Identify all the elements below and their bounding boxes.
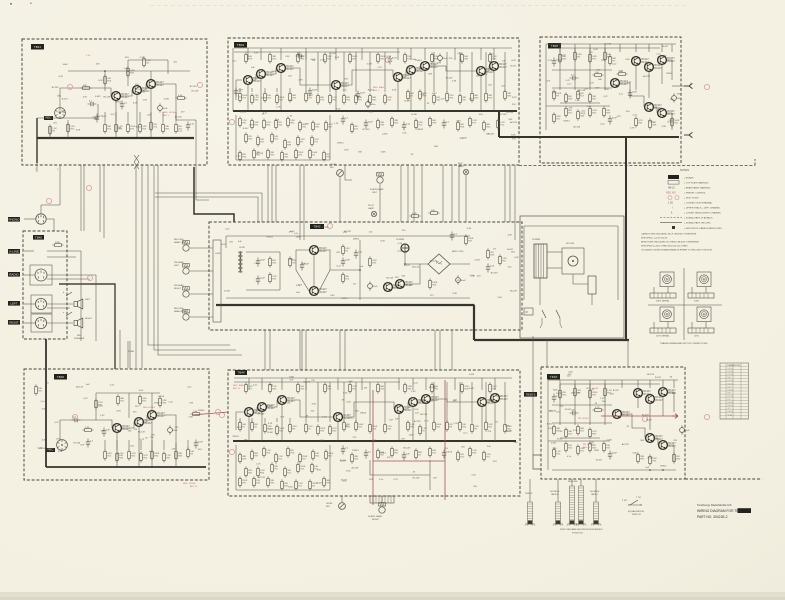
capacitor (608, 451, 618, 460)
resistor (469, 116, 478, 127)
electrolytic capacitor (680, 425, 691, 434)
svg-text:25V: 25V (577, 392, 581, 394)
resistor (269, 256, 277, 267)
bus to TB46 (45, 339, 47, 467)
level indicator right (339, 503, 346, 510)
svg-text:5uF: 5uF (406, 454, 410, 456)
resistor (263, 118, 272, 129)
resistor (635, 116, 644, 127)
supply feeder (604, 44, 606, 52)
capacitor (341, 258, 351, 267)
svg-text:3,3K: 3,3K (452, 81, 457, 83)
svg-text:15K: 15K (401, 276, 405, 278)
capacitor (341, 116, 349, 125)
board label TB40 (33, 235, 44, 240)
ground bus TB41 (37, 137, 194, 139)
svg-text:B-347: B-347 (224, 291, 231, 293)
resistor (649, 118, 657, 129)
wire (545, 44, 547, 130)
svg-text:BC149: BC149 (191, 90, 198, 92)
svg-text:AC128: AC128 (351, 467, 358, 470)
capacitor (86, 439, 94, 448)
junction (649, 469, 651, 471)
svg-text:TRANSFORMER AND MOTOR CONNE: TRANSFORMER AND MOTOR CONNECTIONS (660, 342, 708, 345)
svg-text:1N914: 1N914 (666, 73, 673, 75)
wire (381, 496, 383, 503)
svg-text:8,2K: 8,2K (573, 430, 578, 432)
svg-text:RED.ADJ: RED.ADJ (666, 192, 677, 195)
svg-text:TB45: TB45 (551, 44, 559, 48)
board TB46 outline (24, 369, 209, 480)
svg-text:3,3K: 3,3K (58, 451, 63, 453)
svg-text:10K: 10K (595, 72, 599, 74)
svg-text:3,3K: 3,3K (369, 111, 374, 113)
resistor (577, 444, 586, 455)
svg-text:= BOARD: = BOARD (684, 177, 694, 180)
resistor (323, 476, 331, 487)
supply feeder (673, 380, 675, 388)
resistor (459, 93, 467, 104)
wire (95, 275, 97, 341)
lamp wire (465, 175, 467, 222)
wire (370, 460, 430, 475)
svg-text:25uF: 25uF (368, 122, 374, 124)
capacitor (552, 394, 560, 403)
resistor (609, 54, 617, 65)
svg-text:B-347: B-347 (489, 134, 496, 136)
wire (80, 251, 82, 341)
component string wire TB44 (433, 382, 435, 422)
resistor (351, 452, 359, 463)
rail wire (96, 392, 160, 394)
transistor Q5 (257, 70, 275, 79)
wire (335, 90, 337, 111)
svg-text:47K: 47K (387, 457, 391, 459)
interconnect wire (458, 165, 460, 222)
svg-text:B-347: B-347 (411, 114, 418, 116)
component string wire TB45 (574, 48, 576, 90)
resistor (276, 424, 285, 435)
svg-text:220K: 220K (55, 242, 61, 244)
svg-text:1N914: 1N914 (353, 238, 360, 240)
bus corner TB43 (498, 111, 500, 137)
svg-text:ADJ. R: ADJ. R (190, 485, 197, 488)
svg-text:BC149: BC149 (605, 44, 612, 46)
resistor R10 (104, 74, 112, 85)
svg-text:5uF: 5uF (238, 97, 242, 99)
svg-text:TB36-2: TB36-2 (526, 392, 536, 396)
circled test point 3 (197, 82, 202, 87)
record selector wafer S1a (55, 108, 66, 119)
junction (498, 110, 500, 112)
resistor (377, 448, 385, 459)
svg-text:0,2 3,4: 0,2 3,4 (728, 396, 733, 398)
supply feeder wire (398, 378, 400, 390)
svg-text:TAPE L: TAPE L (591, 493, 599, 496)
level indicator meter (337, 170, 344, 177)
resistor R7 (175, 122, 183, 133)
speaker feed bus (59, 284, 115, 369)
legend deposited resistor symbol (672, 226, 675, 229)
wire (552, 422, 612, 424)
svg-text:25V: 25V (151, 434, 155, 436)
board label TB43 (234, 42, 247, 48)
component string wire TB48 (604, 384, 606, 425)
resistor (589, 441, 597, 452)
wire (115, 101, 117, 138)
capacitor (486, 264, 495, 273)
svg-text:3 3/4: 3 3/4 (622, 500, 628, 502)
supply feeder (559, 44, 561, 52)
svg-text:FLIP: FLIP (458, 163, 463, 165)
transistor Q30 (395, 405, 413, 414)
page edge perforation line (150, 5, 690, 7)
resistor (577, 109, 586, 120)
component stub TB46 (104, 440, 106, 450)
resistor (553, 447, 562, 458)
junction (662, 469, 664, 471)
coupling wire (404, 402, 408, 409)
svg-text:5uF: 5uF (487, 446, 491, 448)
resistor (431, 382, 439, 393)
svg-text:25V: 25V (229, 242, 233, 244)
resistor (325, 120, 334, 131)
wire (329, 115, 331, 160)
coupling wire (341, 70, 393, 85)
svg-text:LEFT: LEFT (174, 265, 180, 267)
circled test point (72, 414, 77, 419)
coupling wire (416, 66, 420, 70)
svg-text:RECORD: RECORD (174, 308, 184, 310)
right label (8, 320, 20, 325)
signal bus TB44 (233, 440, 516, 442)
resistor (429, 446, 437, 457)
relay box (524, 308, 533, 315)
svg-text:RED. BIAS: RED. BIAS (233, 384, 244, 387)
resistor (483, 120, 491, 131)
capacitor (364, 120, 374, 129)
resistor (305, 91, 314, 102)
svg-text:M: M (666, 278, 669, 282)
svg-text:56K: 56K (677, 93, 681, 95)
wire (225, 236, 227, 248)
wire (176, 119, 196, 121)
svg-text:1,5V: 1,5V (86, 55, 91, 57)
svg-text:1,2K: 1,2K (129, 446, 134, 448)
svg-text:B-347: B-347 (136, 127, 143, 129)
svg-text:5uF: 5uF (251, 67, 255, 69)
component string wire TB48 (589, 384, 591, 425)
svg-text:8,2K: 8,2K (605, 89, 610, 91)
svg-text:25V: 25V (423, 69, 427, 71)
resistor (355, 93, 363, 104)
svg-text:56K: 56K (434, 146, 438, 148)
stub wire (289, 88, 291, 92)
svg-text:47K: 47K (336, 252, 340, 254)
svg-text:8,2K: 8,2K (98, 406, 103, 408)
svg-text:HEAD LEFT: HEAD LEFT (174, 241, 187, 244)
transistor Q4 (244, 76, 262, 85)
svg-text:TB46: TB46 (57, 375, 65, 379)
flip lamp (463, 169, 468, 174)
svg-text:B-347: B-347 (510, 66, 517, 68)
motor B1 (562, 248, 584, 274)
svg-text:TB41: TB41 (34, 45, 42, 49)
board TB44 outline (228, 370, 520, 496)
resistor (446, 91, 455, 102)
svg-text:B-347: B-347 (662, 46, 669, 48)
wire (560, 437, 600, 439)
resistor (159, 396, 168, 407)
svg-text:47K: 47K (338, 413, 342, 415)
resistor (275, 118, 283, 129)
resistor (589, 106, 598, 117)
svg-text:BC149: BC149 (52, 87, 59, 89)
record head left (183, 241, 190, 252)
junction (661, 136, 663, 138)
interconnect wire 6 (504, 165, 506, 222)
component string wire TB43 (504, 52, 506, 92)
resistor R4 (139, 122, 148, 133)
red output wire (601, 415, 672, 417)
svg-text:10%: 10% (424, 421, 428, 423)
svg-text:RIGHT: RIGHT (85, 318, 92, 320)
svg-text:12 3,4: 12 3,4 (728, 414, 733, 416)
transistor Q34 (491, 394, 509, 403)
resistor R1 (104, 122, 112, 133)
supply feeder wire (493, 48, 495, 60)
capacitor (570, 74, 579, 80)
left speaker jack J3 (35, 298, 46, 309)
svg-text:10%: 10% (456, 121, 460, 123)
supply feeder wire (305, 378, 307, 390)
svg-text:8,4 0,1: 8,4 0,1 (728, 405, 733, 407)
svg-text:100K: 100K (380, 151, 386, 153)
svg-text:10%: 10% (479, 114, 483, 116)
head wire (190, 316, 213, 318)
coupling wire (287, 400, 333, 417)
junction (115, 137, 117, 139)
resistor (289, 422, 298, 433)
wire (668, 392, 674, 412)
junction (359, 269, 361, 271)
svg-text:25V: 25V (552, 93, 556, 95)
board label TB45 (548, 43, 561, 49)
wire (480, 76, 482, 111)
wire (635, 66, 637, 90)
wire (552, 87, 612, 89)
capacitor (356, 91, 366, 100)
transistor Q13 (632, 57, 650, 66)
left speaker LS1 (74, 299, 83, 309)
svg-text:3,3K: 3,3K (398, 243, 403, 245)
svg-text:10uF: 10uF (260, 278, 266, 280)
svg-text:BC149: BC149 (406, 285, 413, 287)
supply feeder (671, 44, 673, 52)
svg-text:PART NO. 30421B-2: PART NO. 30421B-2 (697, 515, 728, 519)
svg-text:56K: 56K (508, 119, 512, 121)
svg-text:115V: 115V (694, 336, 699, 338)
svg-text:BC149: BC149 (363, 129, 370, 131)
svg-text:WIRING DIAGRAM FOR TB 20: WIRING DIAGRAM FOR TB 20 (697, 509, 743, 513)
resistor (369, 93, 377, 104)
coupling wire Q2-Q3 (142, 84, 146, 90)
svg-text:3,3K: 3,3K (285, 56, 290, 58)
resistor (577, 424, 585, 435)
svg-text:1,2K: 1,2K (275, 119, 280, 121)
supply feeder wire (454, 378, 456, 390)
resistor (309, 148, 318, 159)
resistor (187, 447, 195, 458)
component stub TB46 (140, 440, 142, 450)
svg-text:BC149: BC149 (135, 89, 142, 91)
svg-text:10uF: 10uF (632, 92, 638, 94)
svg-text:BC149: BC149 (491, 273, 498, 275)
resistor (163, 451, 172, 462)
svg-text:PB. LEVEL: PB. LEVEL (578, 418, 590, 420)
svg-text:POSITION: POSITION (572, 532, 583, 534)
component string wire TB44 (355, 382, 357, 422)
wire (397, 82, 399, 111)
svg-text:AC128: AC128 (58, 111, 65, 114)
resistor (284, 138, 292, 149)
circled test point 9 (642, 416, 647, 421)
wire TB41 down 1 (99, 165, 101, 232)
svg-text:1,5V: 1,5V (100, 415, 105, 417)
capacitor (300, 262, 310, 271)
resistor (267, 148, 275, 159)
capacitor C1 (95, 114, 104, 123)
svg-text:AC128: AC128 (76, 385, 83, 388)
component string wire TB44 (504, 382, 506, 422)
svg-text:47uF: 47uF (198, 442, 204, 444)
junction (127, 70, 129, 72)
resistor (559, 52, 567, 63)
svg-text:56K: 56K (514, 442, 518, 444)
resistor R13 (80, 85, 91, 90)
resistor (312, 449, 320, 460)
svg-text:56K: 56K (670, 99, 674, 101)
stub wire (276, 88, 278, 92)
wire (67, 120, 69, 138)
regulator transistor Q21 (384, 283, 402, 292)
resistor (343, 420, 351, 431)
wire (649, 404, 651, 430)
radio wire (24, 274, 35, 276)
circled test point 8 (704, 414, 709, 419)
terminal wire (36, 163, 38, 172)
svg-text:0,2 7: 0,2 7 (728, 399, 732, 401)
output wire (156, 84, 176, 120)
svg-text:8,2K: 8,2K (221, 244, 226, 246)
wire (337, 422, 339, 441)
capacitor (256, 276, 266, 285)
resistor (251, 93, 260, 104)
resistor (245, 466, 253, 477)
pilot lamp (371, 211, 376, 216)
svg-text:56K: 56K (598, 79, 602, 81)
resistor (349, 52, 358, 63)
playback head right lower (379, 503, 386, 514)
svg-text:RADIO: RADIO (9, 272, 19, 276)
component string wire TB44 (446, 382, 448, 422)
svg-text:25V: 25V (639, 390, 643, 392)
component string wire TB44 (305, 382, 307, 422)
secondary rail TB43 (234, 51, 400, 53)
transistor Q17 (645, 103, 663, 112)
speaker wire left 2 (47, 307, 70, 309)
svg-text:TONE: TONE (128, 351, 135, 353)
supply feeder wire (280, 48, 282, 60)
long interconnect 4 (154, 165, 236, 350)
board label TB48 (547, 374, 560, 380)
resistor (589, 92, 597, 103)
svg-text:= UPPER TRACK = LEFT CHANNEL: = UPPER TRACK = LEFT CHANNEL (684, 207, 721, 210)
component string wire TB45 (559, 48, 561, 90)
interconnect wire (400, 165, 402, 222)
radio label (8, 272, 20, 277)
svg-text:25V: 25V (53, 122, 57, 124)
capacitor (402, 452, 411, 461)
svg-text:1N914: 1N914 (198, 410, 205, 412)
resistor (264, 91, 272, 102)
svg-text:5uF: 5uF (80, 444, 84, 446)
svg-text:B-347: B-347 (239, 247, 246, 249)
svg-text:B-347: B-347 (368, 89, 375, 91)
motor capacitor (588, 276, 596, 294)
svg-text:8,2K: 8,2K (511, 60, 516, 62)
wire (532, 394, 534, 455)
playback selector wafer S1b (57, 440, 68, 451)
resistor (116, 451, 124, 462)
supply feeder (589, 380, 591, 388)
svg-text:15K: 15K (461, 447, 465, 449)
svg-text:X-LINE: X-LINE (9, 249, 19, 253)
signal wire left 1 (80, 165, 82, 231)
resistor (483, 450, 492, 461)
motor wire (691, 287, 693, 293)
svg-text:OSC: OSC (330, 295, 335, 297)
transistor Q36 (646, 395, 664, 404)
svg-text:SPECIFIED k=1000 OHMS M=100: SPECIFIED k=1000 OHMS M=1000 000 OHMS (641, 246, 688, 248)
wire (47, 256, 76, 258)
svg-text:56K: 56K (320, 440, 324, 442)
svg-text:AC128: AC128 (622, 443, 629, 446)
signal wire left 2 (83, 165, 85, 231)
head wire (190, 270, 213, 272)
component string wire TB43 (433, 52, 435, 92)
head wire (379, 184, 381, 222)
junction (281, 440, 283, 442)
svg-text:RECORD: RECORD (568, 481, 578, 483)
phono wire (24, 218, 36, 220)
component string wire TB44 (317, 382, 319, 422)
resistor (485, 420, 494, 431)
interconnect wire (271, 165, 273, 222)
svg-text:3,3K: 3,3K (188, 417, 193, 419)
svg-text:8,2K: 8,2K (335, 57, 340, 59)
resistor R11 (127, 66, 136, 77)
power section outline (520, 216, 624, 338)
svg-text:BC149: BC149 (386, 277, 393, 279)
resistor (289, 91, 297, 102)
resistor (329, 424, 338, 435)
interconnect wire (451, 165, 453, 222)
phono DIN connector J1 (36, 214, 46, 224)
circled test point (229, 449, 234, 454)
supply feeder (621, 380, 623, 388)
svg-text:B-347: B-347 (646, 419, 653, 421)
